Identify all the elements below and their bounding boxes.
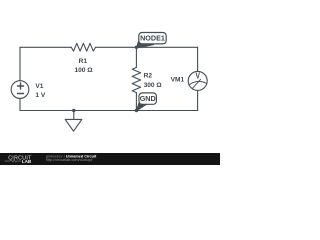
- svg-text:LAB: LAB: [22, 159, 32, 164]
- svg-text:http://circuitlab.com/c6xkzpf: http://circuitlab.com/c6xkzpf: [46, 158, 94, 162]
- svg-text:GND: GND: [140, 94, 156, 103]
- NODE1 flag tail: [136, 41, 154, 48]
- CircuitLab logo resistor line: [5, 160, 21, 163]
- node junction dot GND: [135, 109, 138, 112]
- svg-text:R1: R1: [79, 58, 88, 65]
- wire left vertical V1 top: [19, 47, 21, 81]
- svg-text:100 Ω: 100 Ω: [74, 67, 93, 74]
- wire top horizontal: [20, 46, 71, 48]
- svg-text:V1: V1: [35, 83, 43, 90]
- watermark bar: [0, 153, 220, 165]
- wire NODE1 vertical to R2: [135, 47, 137, 67]
- svg-text:NODE1: NODE1: [140, 34, 165, 43]
- VM1 dial arc: [189, 81, 206, 84]
- wire VM1 bottom lead: [197, 90, 199, 110]
- svg-text:R2: R2: [144, 73, 153, 80]
- node junction dot NODE1: [135, 46, 138, 49]
- ground symbol: [65, 119, 82, 131]
- wire R2 bottom lead: [135, 93, 137, 111]
- wire VM1 top lead: [197, 47, 199, 71]
- ground stub wire: [73, 111, 75, 120]
- voltage source V1: [11, 81, 29, 99]
- resistor R2: [132, 67, 140, 92]
- svg-text:300 Ω: 300 Ω: [144, 82, 163, 89]
- svg-text:1 V: 1 V: [35, 92, 45, 99]
- V1 minus sign: [18, 93, 24, 95]
- VM1 needle: [192, 79, 200, 88]
- node junction dot ground: [72, 109, 75, 112]
- NODE1 flag box: [139, 33, 166, 44]
- svg-text:VM1: VM1: [171, 76, 185, 83]
- wire left vertical V1 bottom: [19, 98, 21, 110]
- V1 plus sign: [18, 83, 24, 89]
- GND flag box: [139, 93, 156, 104]
- wire top right of R1: [96, 46, 198, 48]
- GND flag tail: [136, 102, 146, 111]
- svg-text:V: V: [195, 71, 199, 81]
- voltmeter VM1: [188, 71, 207, 90]
- wire bottom horizontal: [20, 110, 198, 112]
- resistor R1: [71, 43, 95, 51]
